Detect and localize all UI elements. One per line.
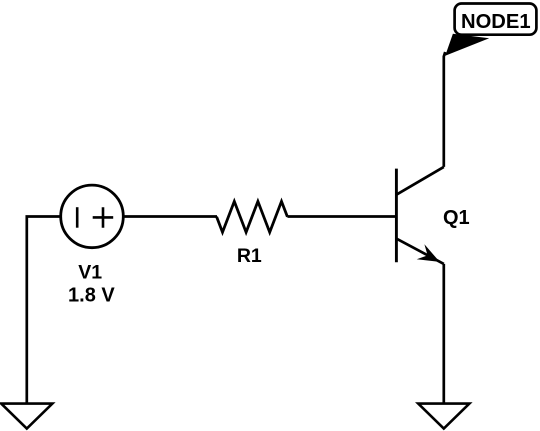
node NODE1 flag	[445, 4, 536, 56]
svg-text:V1: V1	[78, 262, 102, 284]
svg-text:R1: R1	[237, 245, 262, 267]
svg-text:1.8 V: 1.8 V	[68, 285, 115, 307]
svg-text:NODE1: NODE1	[461, 11, 531, 33]
wire from Q1 emitter to right ground	[442, 264, 445, 404]
svg-text:Q1: Q1	[443, 207, 470, 229]
wire from R1 to Q1 base	[287, 215, 395, 218]
transistor Q1	[396, 167, 443, 264]
resistor R1	[217, 201, 288, 232]
ground (right, below Q1)	[418, 404, 469, 429]
wire from V1 positive terminal to R1	[123, 215, 217, 218]
voltage source V1	[61, 185, 124, 248]
wire from V1 negative terminal to left ground	[27, 217, 61, 405]
wire from Q1 collector to NODE1 flag	[444, 52, 445, 167]
ground (left, below V1)	[1, 404, 52, 429]
